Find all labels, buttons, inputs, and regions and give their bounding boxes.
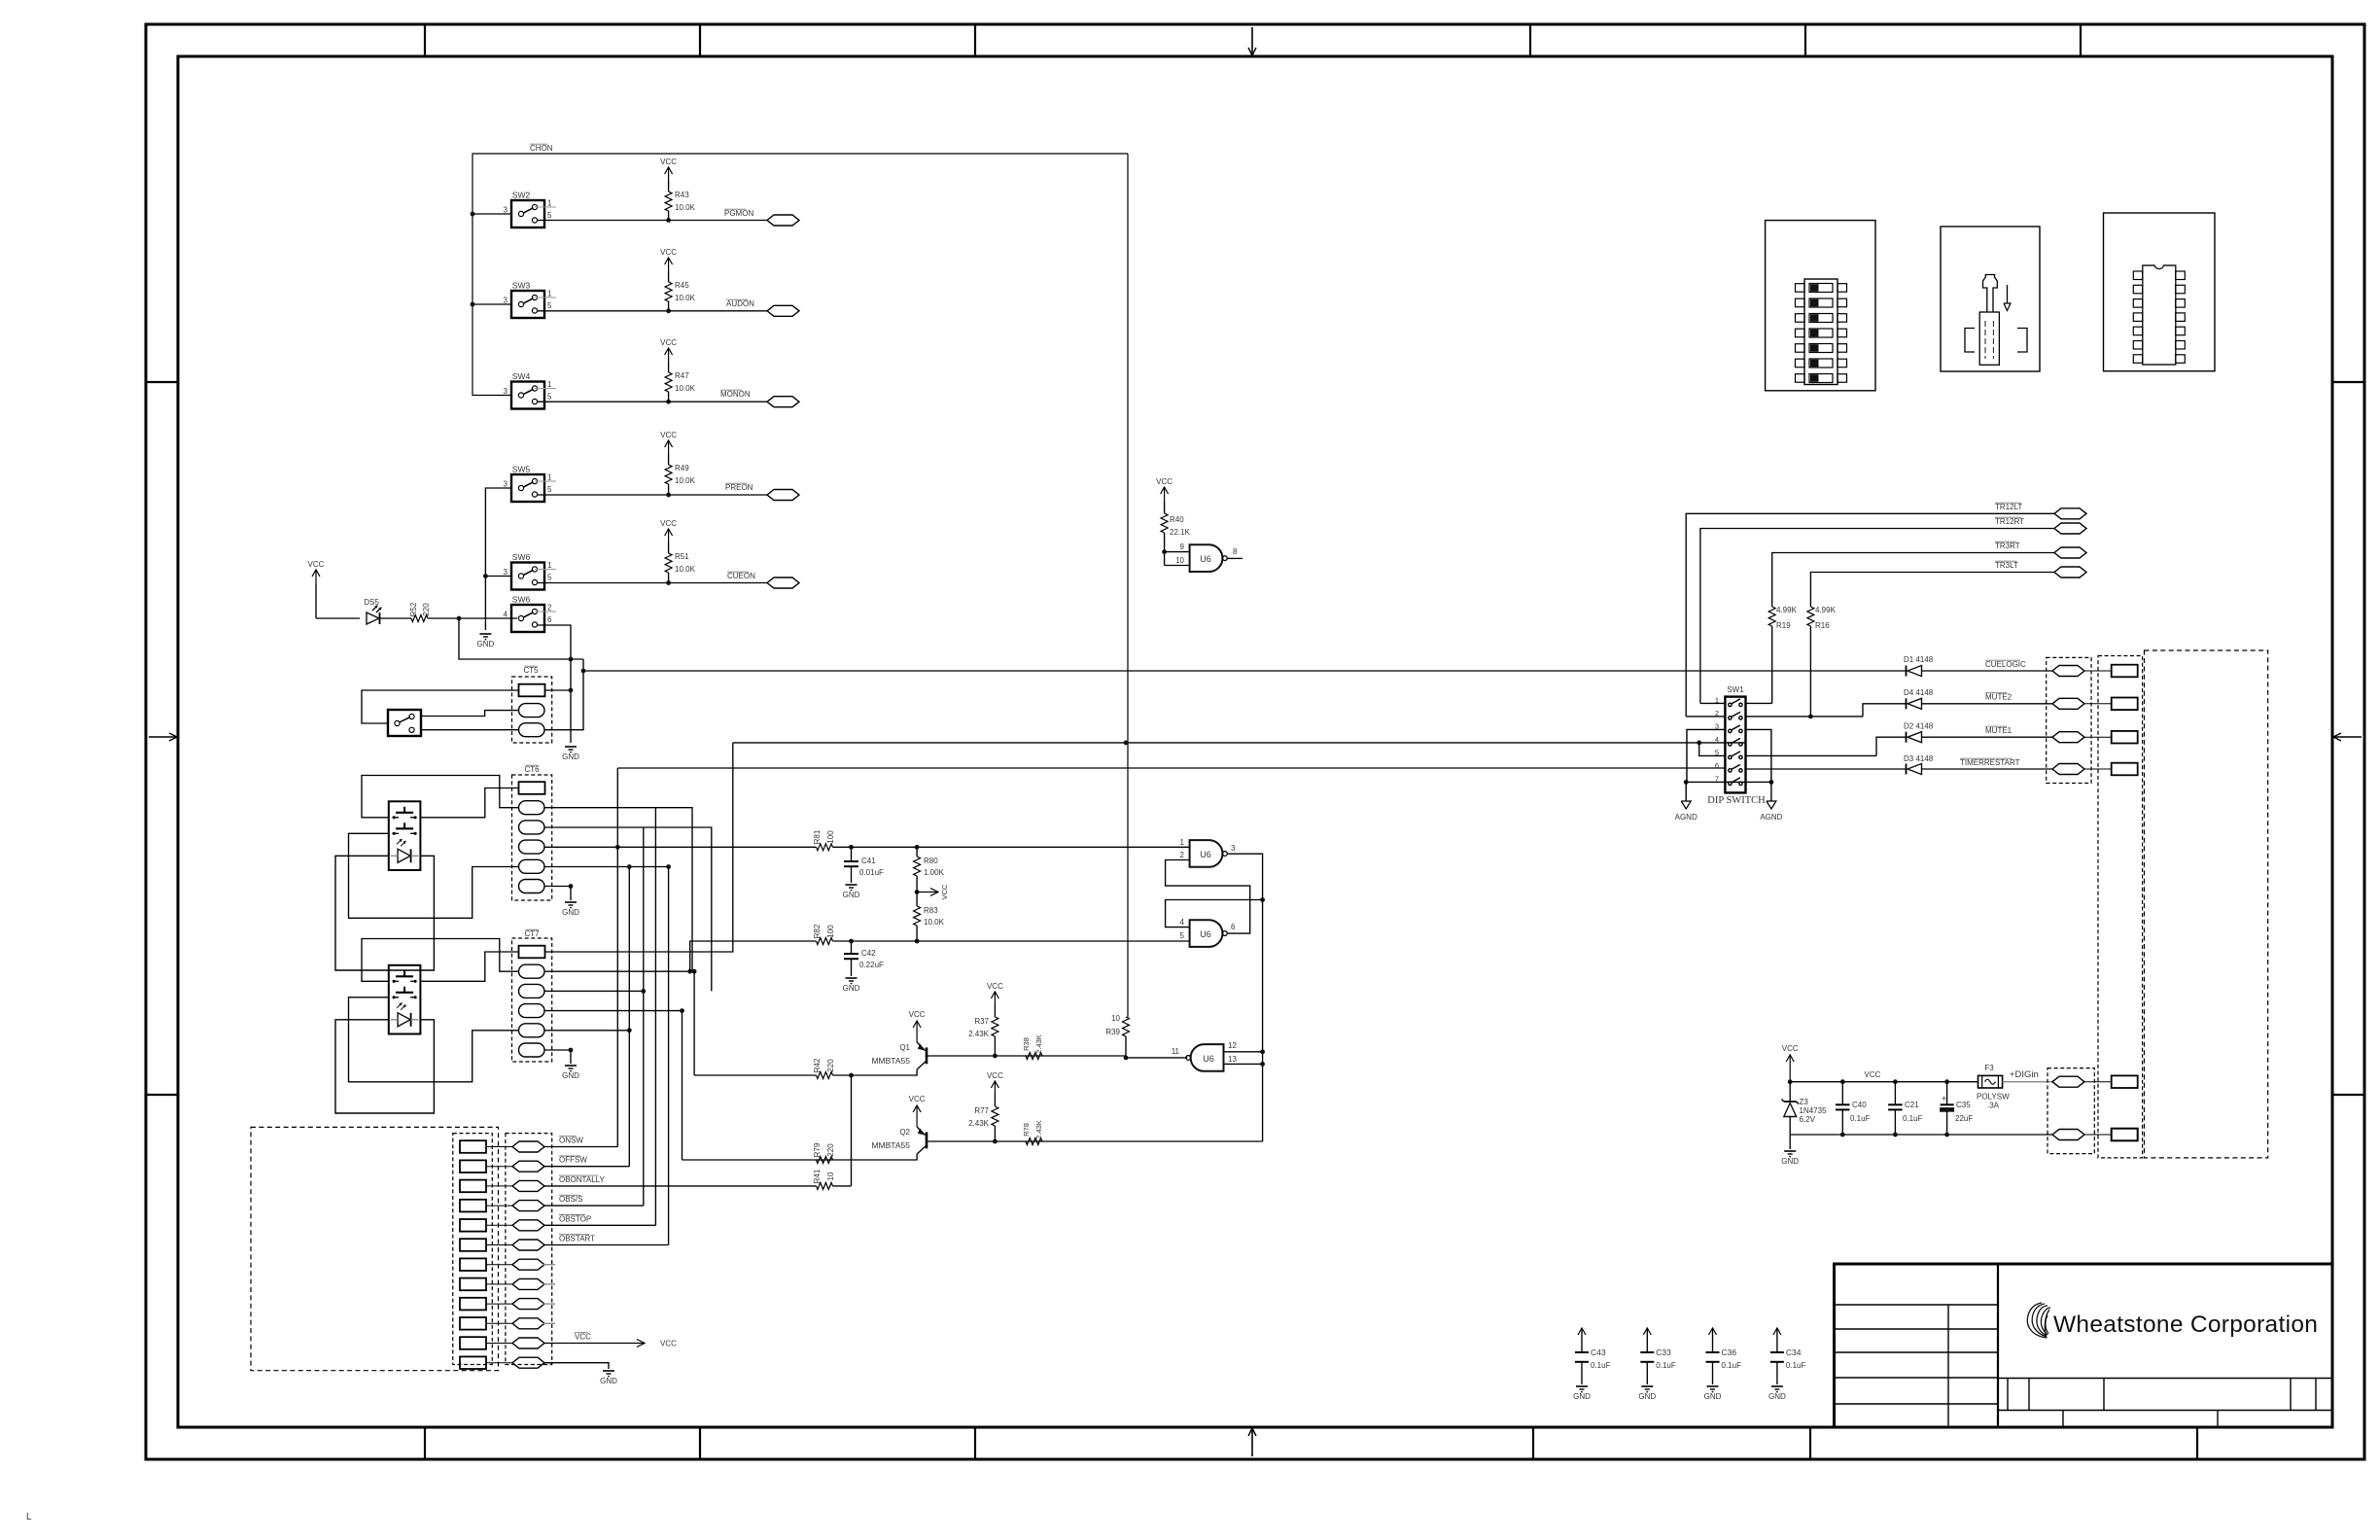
wire CT6 pin4 row to R81	[544, 846, 817, 848]
svg-text:R45: R45	[675, 281, 689, 290]
wire TR12RT run	[1700, 529, 2054, 704]
switch SW3	[511, 291, 544, 318]
svg-text:GND: GND	[562, 1071, 579, 1080]
power VCC R37	[994, 992, 996, 1005]
resistor R37 2.43K	[992, 1017, 998, 1036]
svg-text:C40: C40	[1852, 1101, 1867, 1109]
svg-text:4.99K: 4.99K	[1815, 606, 1837, 614]
wire latch output bus	[1262, 900, 1264, 1142]
svg-text:R49: R49	[675, 464, 689, 472]
wire U6B output cross couple	[1166, 860, 1250, 934]
wire CUEON row	[538, 582, 767, 584]
node power return flag	[2052, 1130, 2084, 1140]
resistor R51 10.0K	[665, 553, 672, 573]
optocoupler CT6 input	[389, 801, 421, 870]
wire U6A output cross couple	[1166, 854, 1263, 927]
svg-text:CHON: CHON	[530, 144, 553, 153]
svg-text:R40: R40	[1170, 515, 1184, 524]
ground GND C42	[846, 977, 857, 979]
svg-text:TIMERRESTART: TIMERRESTART	[1960, 758, 2020, 767]
svg-text:VCC: VCC	[940, 884, 949, 899]
power VCC R49	[668, 440, 670, 454]
capacitor C41 0.01uF	[851, 847, 853, 861]
svg-text:6: 6	[1715, 761, 1719, 770]
svg-text:SW3: SW3	[512, 281, 531, 291]
wire DS5 node down to CUELOGIC corner	[459, 618, 583, 659]
svg-text:R41: R41	[813, 1169, 822, 1183]
svg-text:9: 9	[1180, 542, 1185, 551]
wire SW3 pin1 stub	[535, 297, 556, 298]
svg-text:10.0K: 10.0K	[675, 476, 696, 485]
capacitor C34 0.1uF	[1776, 1328, 1778, 1352]
svg-text:3: 3	[504, 480, 508, 489]
connector +DIGin flag column dashed	[2047, 1068, 2094, 1154]
svg-text:ONSW: ONSW	[559, 1137, 583, 1145]
connector outline dashed right big	[2145, 650, 2268, 1158]
svg-text:VCC: VCC	[987, 982, 1003, 991]
wire CT7 pin2 to R82	[690, 941, 817, 971]
resistor R49 10.0K	[665, 465, 672, 484]
svg-text:C41: C41	[861, 857, 876, 865]
connector pin column dashed	[453, 1134, 493, 1365]
svg-text:3: 3	[504, 297, 508, 305]
svg-text:10.0K: 10.0K	[675, 203, 696, 212]
svg-text:R51: R51	[675, 552, 689, 561]
resistor R83 10.0K	[914, 906, 921, 926]
op-amp U6 gate A pins 1 2 3	[1190, 840, 1223, 867]
border zone tick marks bottom	[424, 1427, 426, 1459]
svg-text:VCC: VCC	[660, 519, 677, 528]
svg-text:10.0K: 10.0K	[675, 565, 696, 574]
svg-text:0.1uF: 0.1uF	[1722, 1361, 1742, 1370]
svg-text:0.1uF: 0.1uF	[1786, 1361, 1806, 1370]
wire riser OBS/S	[643, 827, 645, 1206]
svg-text:VCC: VCC	[1156, 477, 1172, 486]
svg-text:0.01uF: 0.01uF	[859, 868, 884, 877]
connector pin power return	[2083, 1134, 2112, 1136]
connector pin +DIGin	[2083, 1081, 2112, 1083]
svg-text:5: 5	[547, 301, 552, 310]
svg-text:0.1uF: 0.1uF	[1656, 1361, 1676, 1370]
svg-text:5: 5	[547, 211, 552, 220]
ground GND CT6	[565, 901, 577, 903]
svg-text:22.1K: 22.1K	[1170, 528, 1191, 537]
wire riser to R42	[693, 971, 695, 1075]
switch SW4	[511, 382, 544, 409]
svg-text:0.1uF: 0.1uF	[1850, 1114, 1871, 1123]
svg-text:MUTE1: MUTE1	[1985, 726, 2012, 735]
svg-text:2.43K: 2.43K	[968, 1030, 990, 1038]
ground GND C36	[1707, 1385, 1719, 1387]
svg-text:VCC: VCC	[909, 1010, 926, 1019]
wire CT7 pin6 ground	[544, 1049, 571, 1051]
svg-text:C35: C35	[1956, 1101, 1971, 1109]
svg-text:R81: R81	[813, 829, 822, 844]
resistor R19 4.99K	[1768, 607, 1775, 626]
wire CT6 opto loop B	[420, 788, 518, 818]
wire U6D pin8 stub	[1228, 557, 1242, 559]
resistor R40 22.1K	[1161, 513, 1168, 533]
svg-text:6.2V: 6.2V	[1800, 1115, 1816, 1124]
wire ONSW row	[544, 1146, 617, 1148]
svg-text:GND: GND	[843, 891, 860, 899]
svg-text:R16: R16	[1815, 621, 1830, 630]
svg-text:Q2: Q2	[899, 1128, 910, 1137]
svg-text:AUDON: AUDON	[726, 299, 754, 308]
ground GND CT7	[565, 1065, 577, 1067]
connector pin right y758	[2083, 736, 2112, 738]
connector pin row 7	[460, 1258, 486, 1271]
svg-text:VCC: VCC	[660, 431, 677, 439]
svg-text:R39: R39	[1105, 1028, 1120, 1036]
svg-text:220: 220	[826, 1143, 835, 1157]
svg-text:100: 100	[826, 830, 835, 844]
svg-text:D1 4148: D1 4148	[1904, 655, 1934, 664]
svg-text:SW4: SW4	[512, 371, 531, 381]
diode D2 4148	[1876, 737, 1907, 755]
resistor R78 2.43K	[1026, 1138, 1042, 1145]
svg-text:5: 5	[1180, 931, 1185, 940]
svg-text:4: 4	[504, 611, 508, 619]
svg-text:GND: GND	[1573, 1392, 1591, 1401]
wire CT7 pin4 row	[544, 1010, 682, 1012]
wire U6C pin13	[1224, 1063, 1263, 1065]
wire U6C pin12	[1224, 1051, 1263, 1053]
wire SW1 AGND rail	[1686, 781, 1771, 783]
svg-text:R47: R47	[675, 371, 689, 380]
wire Q1 base row	[927, 1055, 1126, 1057]
wire U6C pin11	[1126, 1057, 1187, 1059]
svg-text:2: 2	[547, 604, 552, 612]
svg-text:VCC: VCC	[660, 157, 677, 166]
wire Q2 base row	[927, 1140, 1263, 1142]
wire SW1 pin2 left	[1686, 716, 1725, 717]
ground GND C43	[1576, 1385, 1588, 1387]
svg-text:13: 13	[1228, 1055, 1237, 1064]
wire SW6 pin3 stub	[485, 576, 511, 577]
svg-text:10: 10	[1175, 556, 1184, 565]
svg-text:R52: R52	[409, 602, 418, 616]
svg-text:R80: R80	[924, 857, 938, 865]
connector block dashed outline	[251, 1127, 499, 1370]
wire SW2 pin3	[472, 213, 511, 215]
wire OFFSW row	[544, 1166, 629, 1168]
wire TR12LT run	[1686, 513, 2054, 717]
svg-text:22uF: 22uF	[1955, 1114, 1973, 1123]
capacitor C42 0.22uF	[851, 941, 853, 954]
svg-text:2: 2	[1180, 851, 1185, 859]
power VCC R51	[668, 529, 670, 542]
svg-text:2.43K: 2.43K	[968, 1119, 990, 1128]
power VCC R40	[1164, 487, 1166, 501]
title block outline	[1835, 1264, 2333, 1427]
svg-text:0.22uF: 0.22uF	[859, 961, 884, 969]
ground GND C34	[1771, 1385, 1783, 1387]
diode D3 4148	[1746, 768, 1907, 770]
wire fuse to +DIGin flag	[2003, 1081, 2052, 1083]
svg-text:GND: GND	[1781, 1157, 1799, 1166]
svg-text:12: 12	[1228, 1041, 1237, 1050]
wire CT6 opto loop C	[349, 833, 519, 918]
svg-text:TR12LT: TR12LT	[1995, 503, 2022, 511]
wire CT7 pin2 row	[544, 970, 694, 972]
svg-text:1: 1	[547, 473, 552, 482]
power VCC LED feed	[315, 570, 317, 583]
wire CT6 pin3 to CT7	[544, 827, 712, 991]
connector pin right y690	[2083, 670, 2112, 672]
wire AUDON row	[538, 310, 767, 312]
wire riser OFFSW	[628, 867, 630, 1167]
title block right rows	[1998, 1378, 2332, 1380]
svg-text:OBSTART: OBSTART	[559, 1235, 595, 1243]
svg-text:L: L	[26, 1512, 32, 1522]
svg-text:VCC: VCC	[909, 1095, 926, 1103]
LED DS5	[316, 617, 360, 619]
wire VCC row with arrow	[544, 1343, 644, 1345]
svg-text:5: 5	[547, 393, 552, 402]
svg-text:C43: C43	[1591, 1347, 1606, 1357]
wire GND row	[544, 1363, 609, 1369]
svg-text:SW1: SW1	[1727, 685, 1744, 694]
border center arrow bottom	[1251, 1429, 1253, 1456]
wire CT5 pin3 to CUELOGIC	[544, 659, 583, 730]
wire CT5 pin3 to switch	[421, 729, 519, 731]
package drawing jumper adjust	[1941, 227, 2040, 371]
svg-text:GND: GND	[1768, 1392, 1786, 1401]
connector flag column dashed right	[2047, 657, 2091, 783]
resistor R42 220	[694, 1074, 816, 1076]
svg-text:1: 1	[547, 561, 552, 570]
wire VCC rail	[1790, 1081, 1977, 1083]
svg-text:VCC: VCC	[1865, 1070, 1881, 1079]
svg-text:PREON: PREON	[725, 483, 753, 492]
svg-text:R83: R83	[924, 906, 938, 915]
resistor R41 10	[817, 1182, 833, 1189]
optocoupler CT7 input	[389, 965, 421, 1034]
svg-text:VCC: VCC	[1782, 1044, 1799, 1053]
resistor R81 100	[817, 844, 833, 851]
resistor R52 220	[380, 617, 411, 619]
svg-text:100: 100	[826, 925, 835, 938]
resistor R80 1.00K	[916, 847, 918, 857]
connector pin row 10	[460, 1317, 486, 1330]
resistor R79 220	[817, 1157, 833, 1164]
svg-text:R77: R77	[974, 1106, 989, 1115]
svg-text:OBSTOP: OBSTOP	[559, 1214, 591, 1223]
svg-text:AGND: AGND	[1675, 813, 1697, 822]
svg-text:1: 1	[1180, 838, 1185, 847]
switch SW6 upper half	[511, 563, 544, 590]
logo Wheatstone Corporation	[2027, 1303, 2050, 1338]
ground GND connector	[603, 1370, 614, 1372]
svg-text:3: 3	[1231, 844, 1236, 853]
wire SW3 pin3	[472, 303, 511, 305]
wire OBSTART row	[544, 1244, 669, 1246]
op-amp U6 gate B pins 4 5 6	[1190, 920, 1223, 947]
wire SW6 pin2 stub	[535, 611, 556, 612]
wire net ONSW to SW1 pin6	[617, 767, 1725, 769]
svg-text:1: 1	[547, 380, 552, 389]
svg-text:R79: R79	[813, 1142, 822, 1157]
wire PGMON row	[538, 220, 767, 222]
arrow insert direction	[2007, 285, 2009, 303]
svg-text:R43: R43	[675, 191, 689, 199]
bracket right	[2017, 329, 2027, 353]
svg-text:MMBTA55: MMBTA55	[871, 1056, 910, 1066]
bracket left	[1965, 329, 1975, 353]
svg-text:TR12RT: TR12RT	[1995, 517, 2024, 526]
zener Z3 1N4735 6.2V	[1789, 1082, 1791, 1102]
wire CT6 pin2 to CT7	[544, 808, 692, 972]
package drawing DIP-14 IC	[2104, 213, 2216, 371]
wire riser ONSW	[616, 768, 618, 1147]
wire CT6 opto loop A	[362, 776, 519, 818]
wire SW1 pin5 right	[1746, 754, 1877, 756]
svg-text:VCC: VCC	[660, 248, 677, 257]
resistor R16 4.99K	[1807, 607, 1814, 626]
svg-text:R19: R19	[1776, 621, 1791, 630]
svg-text:5: 5	[547, 485, 552, 494]
wire TR3RT run	[1772, 553, 2054, 608]
resistor R43 10.0K	[665, 192, 672, 211]
svg-text:C33: C33	[1656, 1347, 1671, 1357]
connector pin column dashed right	[2098, 656, 2143, 1158]
svg-text:DIP SWITCH: DIP SWITCH	[1707, 795, 1766, 806]
svg-text:1: 1	[547, 199, 552, 208]
connector pin right y791	[2083, 768, 2112, 770]
wire CT7 pin1 row riser	[544, 743, 733, 952]
svg-text:POLYSW: POLYSW	[1977, 1093, 2010, 1102]
switch CT5 footswitch	[388, 710, 421, 736]
power VCC R47	[668, 348, 670, 362]
svg-text:OBONTALLY: OBONTALLY	[559, 1175, 605, 1184]
svg-text:GND: GND	[562, 908, 579, 917]
svg-text:C36: C36	[1722, 1347, 1737, 1357]
svg-text:3: 3	[504, 568, 508, 577]
border zone tick marks left	[146, 381, 178, 383]
capacitor C21 0.1uF	[1894, 1082, 1896, 1105]
wire CT7 opto loop A	[362, 939, 519, 982]
svg-text:4.99K: 4.99K	[1776, 606, 1798, 614]
wire MONON row	[538, 401, 767, 402]
svg-text:SW6: SW6	[512, 595, 531, 605]
svg-text:GND: GND	[562, 752, 579, 761]
svg-text:C42: C42	[861, 949, 876, 958]
resistor R38 2.43K	[1026, 1053, 1042, 1060]
svg-text:.3A: .3A	[1987, 1102, 2000, 1110]
connector pin right y723	[2083, 703, 2112, 705]
capacitor C36 0.1uF	[1712, 1328, 1714, 1352]
svg-text:2.43K: 2.43K	[1034, 1120, 1043, 1139]
svg-text:VCC: VCC	[660, 1340, 677, 1348]
svg-text:6: 6	[1231, 923, 1236, 931]
resistor R82 100	[817, 938, 833, 945]
svg-text:220: 220	[826, 1059, 835, 1072]
resistor R45 10.0K	[665, 282, 672, 301]
svg-text:10.0K: 10.0K	[675, 294, 696, 302]
svg-text:Q1: Q1	[899, 1043, 910, 1052]
wire PREON row	[538, 494, 767, 496]
svg-text:SW5: SW5	[512, 465, 531, 474]
svg-text:MONON: MONON	[720, 390, 751, 399]
svg-text:D4 4148: D4 4148	[1904, 688, 1934, 697]
title block left rows	[1835, 1304, 1999, 1306]
wire OBONTALLY row to R41	[544, 1185, 817, 1187]
connector pin row 2	[460, 1160, 486, 1172]
wire SW6 pin1 stub	[535, 569, 556, 571]
ground AGND left	[1685, 782, 1687, 801]
wire SW6 pin6 down to CT5	[538, 625, 571, 743]
connector pin row 9	[460, 1298, 486, 1311]
svg-text:C34: C34	[1786, 1347, 1802, 1357]
svg-text:5: 5	[1715, 748, 1719, 756]
connector pin row 4	[460, 1200, 486, 1212]
svg-text:2.43K: 2.43K	[1034, 1034, 1043, 1054]
connector pin row 12	[460, 1356, 486, 1369]
svg-text:11: 11	[1172, 1047, 1180, 1056]
connector pin row 6	[460, 1239, 486, 1251]
op-amp U6 gate C pins 11 12 13	[1191, 1044, 1224, 1071]
switch SW6 lower half	[511, 605, 544, 632]
switch SW2	[511, 200, 544, 227]
connector pin row 11	[460, 1337, 486, 1349]
resistor R39 10	[1123, 1017, 1130, 1036]
connector pin row 5	[460, 1219, 486, 1232]
svg-text:SW2: SW2	[512, 191, 531, 200]
svg-text:3: 3	[504, 387, 508, 396]
wire net to SW1 pin4	[733, 742, 1746, 744]
svg-text:OFFSW: OFFSW	[559, 1156, 587, 1165]
switch SW5	[511, 474, 544, 502]
svg-text:PGMON: PGMON	[724, 209, 753, 218]
svg-text:R38: R38	[1022, 1037, 1031, 1051]
svg-text:1: 1	[547, 290, 552, 298]
svg-text:TR3LT: TR3LT	[1995, 561, 2018, 570]
wire SW2 pin1 stub	[535, 206, 556, 208]
resistor R77 2.43K	[992, 1106, 998, 1126]
svg-text:CT7: CT7	[524, 929, 540, 938]
svg-text:AGND: AGND	[1760, 813, 1782, 822]
wire CT7 opto LED loop	[335, 1020, 434, 1113]
diode D4 4148	[1863, 704, 1907, 717]
wire CT6 opto LED loop	[335, 856, 434, 970]
wire CT6 pin6 ground	[544, 886, 571, 888]
power VCC R43	[668, 167, 670, 181]
op-amp U6 gate D pins 9 10 8	[1165, 551, 1190, 553]
wire Q1 collector drop	[851, 1075, 853, 1186]
wire riser to R79	[682, 1011, 683, 1160]
border center arrow top	[1251, 27, 1253, 54]
node +DIGin flag	[2052, 1076, 2084, 1087]
svg-text:+DIGin: +DIGin	[2010, 1069, 2039, 1080]
svg-text:1N4735: 1N4735	[1800, 1106, 1828, 1115]
wire SW1 pin3 right to AGND rail	[1746, 729, 1771, 782]
svg-text:4: 4	[1715, 735, 1719, 744]
svg-text:U6: U6	[1200, 554, 1211, 564]
resistor R47 10.0K	[665, 372, 672, 392]
wire OBSTOP row	[544, 1224, 655, 1226]
svg-text:D2 4148: D2 4148	[1904, 722, 1934, 731]
ground GND CT5	[565, 746, 577, 748]
wire SW1 pin3 left to AGND rail	[1687, 729, 1725, 782]
power VCC R45	[668, 258, 670, 271]
svg-text:0.1uF: 0.1uF	[1591, 1361, 1611, 1370]
svg-text:Wheatstone Corporation: Wheatstone Corporation	[2053, 1312, 2318, 1338]
svg-text:TR3RT: TR3RT	[1995, 542, 2020, 550]
svg-text:5: 5	[547, 574, 552, 582]
ground AGND right	[1770, 782, 1772, 801]
wire SW1 pin2 right bus	[1746, 716, 1864, 717]
